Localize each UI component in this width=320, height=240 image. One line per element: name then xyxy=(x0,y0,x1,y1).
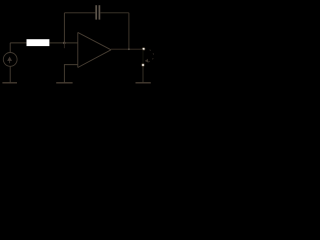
wire source top stem xyxy=(9,43,11,53)
wire op-amp output xyxy=(111,48,144,50)
current dot D1 xyxy=(142,47,145,50)
junction fading stub xyxy=(63,43,65,48)
wire node up to feedback xyxy=(63,13,65,43)
current direction arc arrow xyxy=(145,50,153,62)
current dot D2 xyxy=(141,63,144,66)
wire source to resistor xyxy=(10,42,26,44)
wire resistor to node xyxy=(49,42,64,44)
node junction dot inverting input xyxy=(63,42,66,45)
ground G2 bar xyxy=(56,82,72,84)
resistor R1 body xyxy=(27,39,50,46)
wire source bottom stem xyxy=(9,66,11,82)
capacitor C1 left plate xyxy=(95,5,97,19)
wire node to op-amp minus input xyxy=(64,42,78,44)
current source CS1 circle xyxy=(3,53,17,67)
wire plus input xyxy=(64,65,77,83)
current source CS1 arrow xyxy=(9,60,11,63)
wire output down lower xyxy=(142,64,144,83)
junction feedback output xyxy=(128,48,130,50)
wire feedback top right xyxy=(100,12,129,14)
wire feedback top left xyxy=(64,12,95,14)
capacitor C1 right plate xyxy=(98,5,100,19)
ground G3 bar xyxy=(136,82,151,84)
wire feedback right vertical xyxy=(128,13,130,49)
wire output down xyxy=(142,50,144,64)
ground G1 bar xyxy=(2,82,17,84)
op-amp U1 triangle xyxy=(78,32,111,67)
